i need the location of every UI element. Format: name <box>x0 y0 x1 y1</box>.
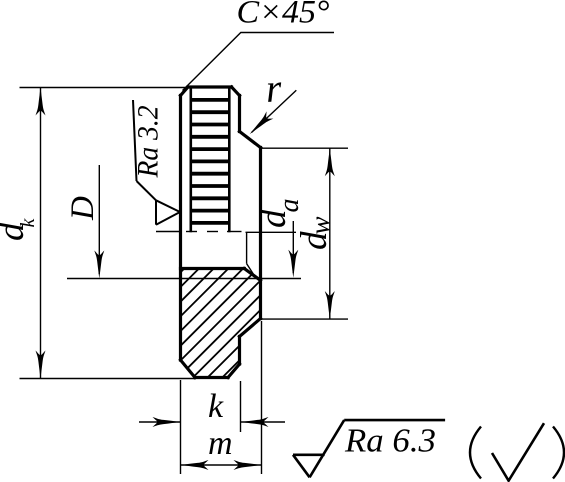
dimension d_a line with down arrow <box>288 221 298 278</box>
wire bore wall <box>181 267 245 270</box>
node centerline (axis) dash-dot <box>156 231 242 233</box>
wire top edge <box>188 85 232 88</box>
wire d_w top extension line <box>262 147 348 149</box>
wire knurl left boundary <box>190 87 193 231</box>
wire right face upper <box>238 96 241 132</box>
wire bore chamfer <box>244 269 260 281</box>
dimension k with inward arrows <box>139 417 285 427</box>
svg-text:Ra 6.3: Ra 6.3 <box>344 423 436 460</box>
wire left face <box>179 96 182 361</box>
wire d_w bottom extension line <box>262 318 348 320</box>
wire flange edge <box>259 148 262 319</box>
dimension d_w line with arrows <box>325 148 335 319</box>
hatch section fill <box>170 163 290 430</box>
wire top-left chamfer <box>181 87 189 96</box>
wire knurl right boundary <box>228 87 231 231</box>
wire k left extension line <box>180 380 182 474</box>
wire flange fillet chamfer r <box>240 132 261 148</box>
part outline: knurled nut body <box>181 87 261 378</box>
svg-text:Ra 3.2: Ra 3.2 <box>132 106 165 179</box>
wire thread major diameter thin line (D / d_a extension) <box>67 278 301 280</box>
wire top-right chamfer <box>232 87 240 96</box>
wire bore chamfer helper lines <box>247 232 257 278</box>
wire d_k top extension line <box>20 87 187 89</box>
dimension D line with down arrow <box>94 165 104 279</box>
wire k right extension line <box>240 381 242 432</box>
wire C×45° leader <box>183 33 335 91</box>
surface finish symbol Ra 3.2 <box>133 100 180 225</box>
wire m right extension line <box>261 321 263 474</box>
wire bottom-right chamfer <box>228 364 240 378</box>
svg-text:m: m <box>208 425 233 462</box>
surface finish symbol Ra 6.3 <box>293 420 445 477</box>
wire flange lower chamfer <box>240 319 261 337</box>
dimension m with outward arrows <box>181 460 262 470</box>
knurl pattern bars <box>191 100 230 223</box>
wire bottom edge <box>195 376 228 379</box>
svg-text:r: r <box>265 65 283 111</box>
wire r leader with arrow <box>246 90 296 138</box>
wire bottom-left chamfer <box>181 360 196 378</box>
dimension d_k line with arrows <box>36 88 46 379</box>
wire d_k bottom extension line <box>20 378 197 380</box>
svg-text:k: k <box>208 388 224 425</box>
other-roughness checkmark in parentheses <box>470 423 564 481</box>
svg-text:C×45°: C×45° <box>237 0 330 31</box>
wire right face lower <box>238 337 241 365</box>
svg-text:D: D <box>65 196 101 221</box>
wire d_a top extension line <box>246 231 297 233</box>
